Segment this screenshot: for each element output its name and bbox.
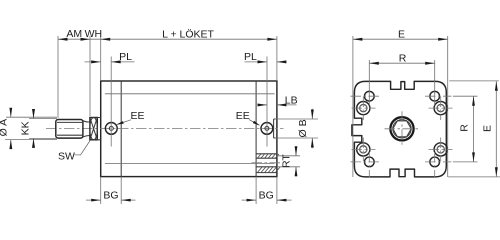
svg-text:BG: BG — [103, 190, 118, 202]
svg-text:RT: RT — [280, 154, 292, 168]
wrench-flats block SW — [90, 118, 97, 140]
sensor hole top-left — [364, 91, 374, 101]
sensor hole bottom-left — [364, 157, 374, 167]
screw hole top-right — [434, 102, 447, 115]
ØB dimension — [275, 118, 318, 120]
port EE left circle — [105, 122, 117, 134]
left end-cap joint line — [120, 81, 122, 177]
cylinder body outline (side view) — [101, 81, 277, 177]
ØA dimension — [10, 110, 12, 118]
center rod nut — [390, 117, 413, 140]
rod neck — [83, 121, 90, 137]
thread minor diameter lines — [57, 121, 83, 123]
svg-text:WH: WH — [85, 28, 103, 40]
PL left dimension — [85, 61, 101, 63]
end view plate outline — [352, 81, 446, 176]
extension lines top — [57, 36, 59, 118]
BG right dimension — [255, 177, 257, 204]
svg-text:PL: PL — [119, 51, 132, 63]
svg-text:LB: LB — [285, 94, 298, 106]
E right dimension — [495, 81, 497, 177]
sensor hole bottom-right — [430, 157, 440, 167]
svg-text:R: R — [459, 124, 471, 132]
piston rod thread — [56, 120, 83, 139]
screw hole bottom-right — [434, 143, 447, 156]
E top dimension — [353, 38, 448, 40]
wrench flats cross — [90, 118, 97, 140]
lower sensor-slot line — [105, 162, 275, 164]
svg-text:R: R — [399, 52, 407, 64]
BG left dimension — [100, 177, 102, 204]
svg-text:Ø B: Ø B — [297, 119, 309, 137]
svg-text:EE: EE — [236, 110, 250, 122]
center crosslines — [385, 128, 420, 130]
LB dimension — [260, 104, 268, 106]
svg-text:SW: SW — [58, 150, 75, 162]
R right dimension — [473, 96, 475, 162]
sensor hole centerlines — [351, 95, 380, 97]
upper sensor-slot line — [105, 93, 275, 95]
main centerline — [46, 127, 284, 129]
svg-text:E: E — [398, 28, 405, 40]
sensor hole top-right — [430, 91, 440, 101]
dimension row AM WH L+LOKET — [58, 38, 277, 40]
R top dimension — [369, 62, 434, 64]
screw hole bottom-left — [357, 143, 370, 156]
screw hole centerlines — [352, 107, 376, 109]
svg-text:PL: PL — [244, 51, 257, 63]
PL right dimension — [245, 61, 268, 63]
port EE right circle — [261, 122, 273, 134]
KK dimension — [33, 111, 35, 118]
right face boss (ØB) — [274, 119, 277, 138]
rod ellipse through flats — [90, 117, 98, 139]
RT threaded hole section — [256, 154, 280, 173]
left rod boss — [97, 118, 100, 140]
svg-text:L + LÖKET: L + LÖKET — [162, 28, 214, 40]
RT hole centerline — [252, 162, 281, 164]
right end-cap joint line — [255, 81, 257, 177]
svg-text:Ø A: Ø A — [0, 119, 10, 137]
screw hole top-left — [357, 102, 370, 115]
svg-text:BG: BG — [259, 190, 274, 202]
svg-text:E: E — [482, 125, 494, 132]
RT dimension — [277, 155, 300, 157]
svg-text:EE: EE — [130, 110, 144, 122]
svg-text:KK: KK — [20, 121, 32, 135]
svg-text:AM: AM — [66, 28, 82, 40]
